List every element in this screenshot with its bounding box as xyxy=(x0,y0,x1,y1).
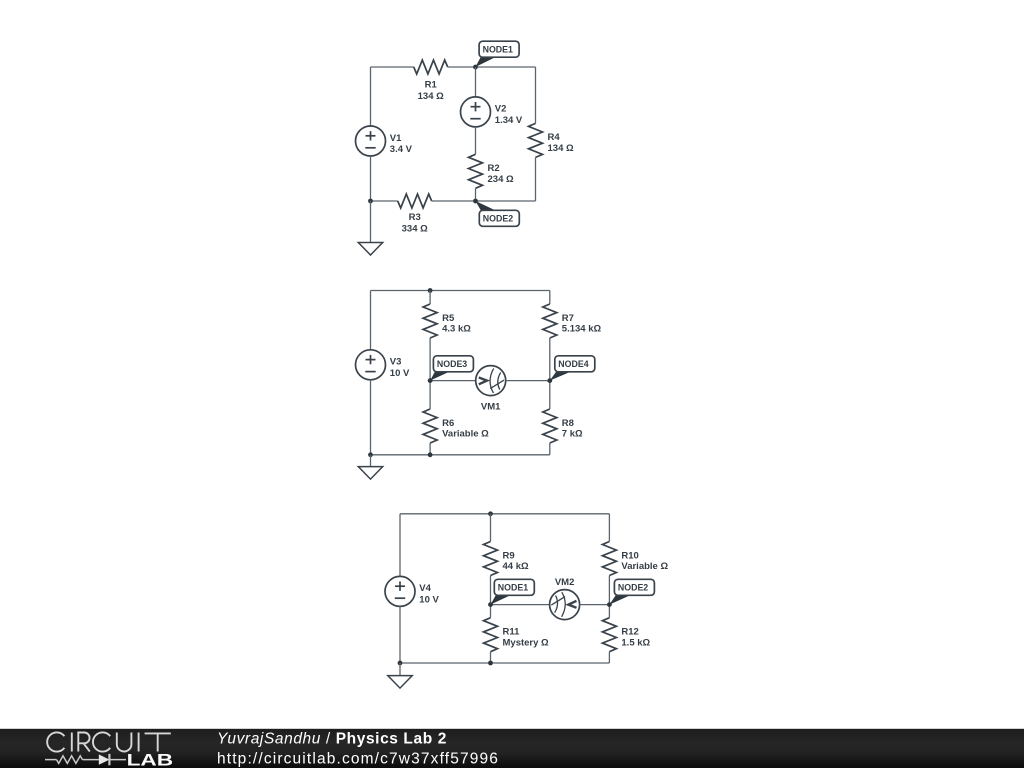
wire V2 bottom to R2 top xyxy=(475,127,477,154)
junction NODE1 at (475.5,67) xyxy=(473,65,478,70)
ground circuit 2 xyxy=(358,467,382,480)
wire to R5 top xyxy=(429,291,431,305)
wire top rail to R7 top xyxy=(549,291,551,305)
wire top rail to R10 top xyxy=(608,514,610,542)
svg-text:Variable Ω: Variable Ω xyxy=(621,561,668,572)
wire R6 bottom to bottom rail xyxy=(429,443,431,455)
svg-text:NODE3: NODE3 xyxy=(437,359,467,369)
wire VM1 right terminal to NODE4 xyxy=(506,380,550,382)
node label NODE2 xyxy=(476,201,498,211)
svg-text:NODE4: NODE4 xyxy=(558,359,588,369)
voltage source V4 xyxy=(385,576,415,606)
wire top rail circuit 2 xyxy=(371,290,550,292)
svg-text:LAB: LAB xyxy=(127,751,174,768)
voltmeter VM1 xyxy=(476,366,506,396)
wire bottom rail circuit 2 xyxy=(371,454,550,456)
svg-text:Variable Ω: Variable Ω xyxy=(442,429,489,440)
resistor R3 xyxy=(398,194,432,208)
junction bottom-left circuit 3 xyxy=(398,661,403,666)
svg-text:V4: V4 xyxy=(419,583,431,594)
junction NODE1 at (490.5,604.6) xyxy=(488,602,493,607)
svg-text:R12: R12 xyxy=(621,627,638,638)
svg-text:5.134 kΩ: 5.134 kΩ xyxy=(562,324,602,335)
svg-text:NODE2: NODE2 xyxy=(618,582,648,592)
junction top of left branch circuit 3 xyxy=(488,511,493,516)
svg-text:Mystery Ω: Mystery Ω xyxy=(503,637,550,648)
svg-text:R2: R2 xyxy=(488,163,500,174)
resistor R1 xyxy=(414,60,448,74)
node label NODE4 xyxy=(550,371,573,381)
wire V4 bottom to bottom rail xyxy=(399,606,401,663)
svg-text:134 Ω: 134 Ω xyxy=(418,91,444,102)
wire to ground 1 xyxy=(370,201,372,243)
junction top of left bridge branch xyxy=(428,288,433,293)
wire to R9 top xyxy=(490,514,492,542)
wire top rail circuit 3 xyxy=(400,513,609,515)
svg-text:334 Ω: 334 Ω xyxy=(402,224,428,235)
voltage source V1 xyxy=(356,126,386,156)
wire right rail down to R4 top xyxy=(535,67,537,123)
svg-text:1.34 V: 1.34 V xyxy=(495,115,523,126)
wire NODE4 down to R8 top xyxy=(549,381,551,409)
wire R5 bottom to NODE3 xyxy=(429,338,431,381)
svg-text:http://circuitlab.com/c7w37xff: http://circuitlab.com/c7w37xff57996 xyxy=(217,751,499,768)
wire NODE1 down to V2 top xyxy=(475,67,477,97)
junction bottom-left circuit 2 xyxy=(368,452,373,457)
svg-text:3.4 V: 3.4 V xyxy=(390,144,413,155)
resistor R6 xyxy=(423,409,437,443)
wire to ground 2 xyxy=(370,455,372,467)
resistor R10 xyxy=(602,542,616,576)
wire NODE1 to VM2 left terminal xyxy=(491,604,550,606)
resistor R7 xyxy=(543,304,557,338)
svg-text:V3: V3 xyxy=(390,357,402,368)
wire V3 bottom to bottom rail xyxy=(370,380,372,455)
node label NODE3 xyxy=(430,371,451,381)
resistor R8 xyxy=(543,409,557,443)
wire R4 bottom to bottom rail xyxy=(535,157,537,201)
junction NODE3 at (430.1,380.6) xyxy=(428,378,433,383)
svg-text:YuvrajSandhu / Physics Lab 2: YuvrajSandhu / Physics Lab 2 xyxy=(217,731,447,748)
junction bottom of left branch circuit 3 xyxy=(488,661,493,666)
svg-text:NODE2: NODE2 xyxy=(483,213,513,223)
wire NODE3 to VM1 left terminal xyxy=(430,380,476,382)
svg-text:R7: R7 xyxy=(562,313,574,324)
wire bottom-left to R3 xyxy=(371,200,398,202)
svg-text:10 V: 10 V xyxy=(419,595,439,606)
wire top-left to R1 xyxy=(371,66,414,68)
resistor R9 xyxy=(484,542,498,576)
CircuitLab logo word CIRCUIT xyxy=(47,732,171,751)
svg-text:R5: R5 xyxy=(442,313,455,324)
wire NODE2 down to R12 top xyxy=(608,605,610,618)
ground circuit 3 xyxy=(388,676,412,689)
wire NODE3 down to R6 top xyxy=(429,381,431,409)
wire R7 bottom to NODE4 xyxy=(549,338,551,381)
svg-text:R9: R9 xyxy=(503,550,515,561)
wire R8 bottom to bottom rail xyxy=(549,443,551,455)
svg-text:134 Ω: 134 Ω xyxy=(548,143,574,154)
svg-text:R3: R3 xyxy=(409,212,421,223)
svg-text:R11: R11 xyxy=(503,627,521,638)
svg-text:VM1: VM1 xyxy=(481,402,501,413)
wire bottom rail circuit 3 xyxy=(400,662,609,664)
svg-text:1.5 kΩ: 1.5 kΩ xyxy=(621,637,650,648)
junction NODE4 at (549.8,380.6) xyxy=(547,378,552,383)
wire R2 bottom to NODE2 xyxy=(475,188,477,201)
wire left rail to V4 top xyxy=(399,514,401,577)
wire R11 bottom to bottom rail xyxy=(490,652,492,663)
svg-text:R4: R4 xyxy=(548,132,561,143)
voltage source V2 xyxy=(461,97,491,127)
svg-text:R6: R6 xyxy=(442,418,454,429)
resistor R5 xyxy=(423,304,437,338)
resistor R4 xyxy=(529,123,543,157)
svg-text:234 Ω: 234 Ω xyxy=(488,174,514,185)
junction NODE2 at (609.4,604.6) xyxy=(607,602,612,607)
wire R9 bottom to NODE1 xyxy=(490,576,492,605)
wire VM2 right terminal to NODE2 xyxy=(580,604,610,606)
svg-text:R10: R10 xyxy=(621,550,638,561)
ground circuit 1 xyxy=(358,243,382,256)
svg-text:44 kΩ: 44 kΩ xyxy=(503,561,529,572)
resistor R2 xyxy=(469,154,483,188)
node label NODE1 xyxy=(491,594,513,604)
wire R10 bottom to NODE2 xyxy=(608,576,610,605)
voltage source V3 xyxy=(356,350,386,380)
wire to ground 3 xyxy=(399,663,401,676)
svg-text:NODE1: NODE1 xyxy=(483,44,513,54)
node label NODE1 xyxy=(476,56,498,67)
junction NODE2 at (475.5,201) xyxy=(473,199,478,204)
svg-text:NODE1: NODE1 xyxy=(498,582,528,592)
voltmeter VM2 xyxy=(550,590,580,620)
node label NODE2 xyxy=(609,594,632,604)
svg-text:VM2: VM2 xyxy=(555,577,575,588)
resistor R12 xyxy=(602,618,616,652)
wire NODE1 down to R11 top xyxy=(490,605,492,618)
wire R12 bottom to bottom rail xyxy=(608,652,610,663)
junction bottom of left bridge branch xyxy=(428,452,433,457)
wire left rail to V1 top xyxy=(370,67,372,126)
svg-text:R8: R8 xyxy=(562,418,574,429)
CircuitLab logo resistor-diode line xyxy=(45,754,126,765)
wire left rail to V3 top xyxy=(370,291,372,350)
svg-text:10 V: 10 V xyxy=(390,368,410,379)
wire V1 bottom to bottom rail xyxy=(370,156,372,201)
resistor R11 xyxy=(484,618,498,652)
junction left rail / bottom wire xyxy=(368,199,373,204)
svg-text:R1: R1 xyxy=(425,79,438,90)
svg-text:V1: V1 xyxy=(390,133,402,144)
wire R3 to bottom-right corner xyxy=(432,200,536,202)
wire R1 to top-right corner xyxy=(448,66,536,68)
svg-text:7 kΩ: 7 kΩ xyxy=(562,429,583,440)
svg-text:V2: V2 xyxy=(495,104,507,115)
svg-text:4.3 kΩ: 4.3 kΩ xyxy=(442,324,471,335)
